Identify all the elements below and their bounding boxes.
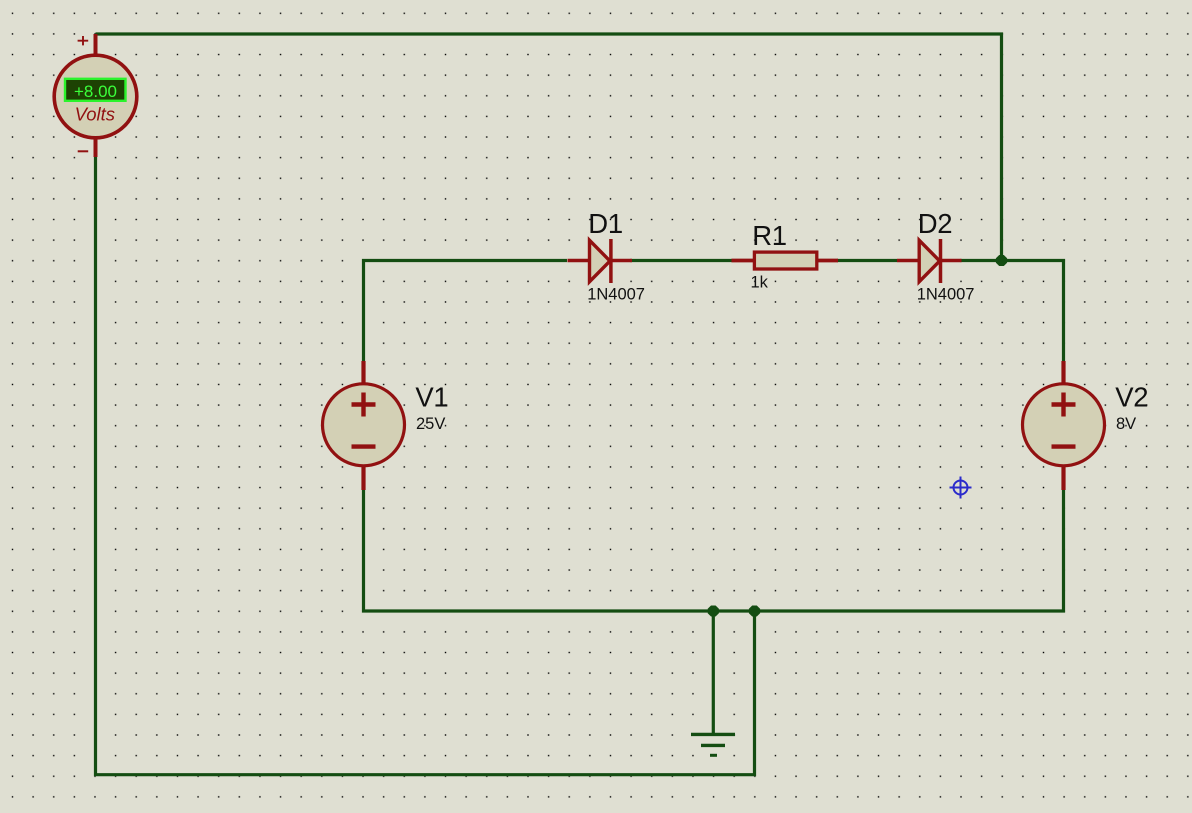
- diode D1: [568, 208, 646, 304]
- V2 plus mark: [1052, 393, 1076, 417]
- svg-text:+8.00: +8.00: [74, 82, 117, 101]
- diode D2: [897, 208, 975, 304]
- voltmeter pin -: [94, 137, 98, 157]
- wire voltmeter - loop: [96, 157, 755, 775]
- voltmeter pin +: [94, 34, 98, 57]
- node ground junction: [708, 606, 719, 617]
- D2 triangle: [919, 240, 940, 281]
- D1 cathode bar: [609, 239, 613, 283]
- V2 minus mark: [1052, 444, 1076, 448]
- R1 body: [754, 252, 816, 269]
- D1 cathode pin: [611, 259, 632, 263]
- V1 minus mark: [352, 444, 376, 448]
- svg-text:8V: 8V: [1116, 415, 1136, 433]
- voltmeter: [54, 34, 137, 157]
- voltage source V2: [1023, 361, 1149, 490]
- R1 pin 1: [732, 259, 755, 263]
- V2 body: [1023, 384, 1105, 466]
- svg-text:D1: D1: [588, 208, 623, 239]
- D2 cathode pin: [940, 259, 961, 263]
- V1 pin -: [361, 465, 365, 490]
- voltage source V1: [323, 361, 449, 490]
- voltmeter display: [65, 79, 126, 101]
- svg-text:D2: D2: [918, 208, 953, 239]
- wire D2 to V2 top: [961, 261, 1064, 363]
- V1 body: [323, 384, 405, 466]
- svg-text:1k: 1k: [751, 274, 769, 292]
- node A junction: [996, 255, 1007, 266]
- D1 triangle: [590, 240, 611, 281]
- D2 anode pin: [897, 259, 920, 263]
- wire D1 to R1: [630, 259, 732, 262]
- V2 pin +: [1061, 361, 1065, 384]
- voltmeter body: [54, 55, 137, 138]
- svg-text:Volts: Volts: [75, 104, 115, 125]
- svg-text:1N4007: 1N4007: [917, 285, 975, 303]
- D2 cathode bar: [939, 239, 943, 283]
- polarity mark -: [78, 150, 89, 152]
- wire ground drop: [712, 611, 715, 734]
- ground: [691, 734, 735, 755]
- svg-text:1N4007: 1N4007: [587, 285, 645, 303]
- V1 plus mark: [352, 393, 376, 417]
- V1 pin +: [361, 361, 365, 384]
- wire bottom: V1 bottom to V2 bottom: [364, 489, 1064, 611]
- wire top: voltmeter + to node A: [96, 34, 1002, 261]
- R1 pin 2: [817, 259, 838, 263]
- node voltmeter junction: [749, 606, 760, 617]
- D1 anode pin: [568, 259, 591, 263]
- origin marker: [950, 477, 972, 499]
- wire R1 to D2: [837, 259, 897, 262]
- V2 pin -: [1061, 465, 1065, 490]
- svg-text:V2: V2: [1115, 382, 1148, 413]
- svg-text:V1: V1: [415, 382, 448, 413]
- resistor R1: [732, 220, 839, 291]
- wire left loop: V1 top to D1: [364, 261, 568, 363]
- svg-text:25V: 25V: [416, 415, 445, 433]
- polarity mark +: [78, 36, 89, 45]
- svg-text:R1: R1: [752, 220, 787, 251]
